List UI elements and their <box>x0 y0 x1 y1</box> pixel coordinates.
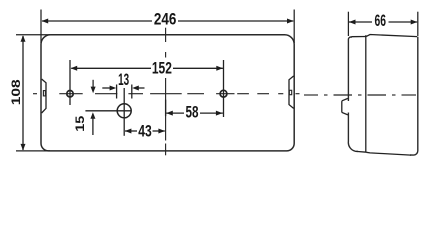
side view mounting tab (profile) <box>342 98 348 115</box>
side view housing bottom edge <box>366 152 411 155</box>
right mounting hole <box>220 90 227 97</box>
svg-text:108: 108 <box>9 79 23 105</box>
dimension 58 line <box>166 112 223 114</box>
dimension 152 arrows <box>71 66 223 71</box>
svg-text:58: 58 <box>186 102 199 121</box>
dimension 108 arrows <box>21 35 26 150</box>
dimension 15 arrow <box>90 112 95 119</box>
right mounting tab <box>289 76 294 108</box>
dimension 13 arrows (outside, pointing inward) <box>110 86 139 91</box>
extension line: left edge extended up (246 dim) <box>40 10 42 44</box>
dimension 66 extension lines <box>347 12 349 36</box>
dimension texts <box>9 10 386 141</box>
side view housing top edge (step up at seam) <box>366 35 417 37</box>
dimension 15 upper arrow (down onto holes centerline) <box>91 87 96 94</box>
dimension 66 arrows <box>349 20 417 25</box>
svg-text:66: 66 <box>375 11 387 30</box>
left mounting tab <box>42 79 46 113</box>
dimension 58 arrows <box>166 111 222 116</box>
right hole vertical centerline / 152+58 extension <box>223 60 225 117</box>
dimension 246 arrows <box>42 19 294 24</box>
cable circle vertical centerline / 43 extension <box>123 88 125 136</box>
vertical centerline of lamp <box>165 28 167 156</box>
dimension 58 left extension (lamp centerline reinforced) <box>165 100 167 116</box>
side view lens bottom edge <box>356 150 366 153</box>
extension line: right edge extended up (246 dim) <box>293 10 295 44</box>
svg-text:246: 246 <box>154 10 177 29</box>
dimension 13 extension ticks (circle tangents) <box>117 85 132 99</box>
side view horizontal centerline (dash-dot) <box>304 94 416 96</box>
side view lens/housing seam <box>365 35 367 152</box>
svg-text:43: 43 <box>138 122 152 141</box>
extension line: top edge extended left (108 dim) <box>16 34 50 36</box>
left tab slot <box>43 91 45 96</box>
dimension 108 line <box>22 36 24 150</box>
dimension 246 line <box>42 20 293 22</box>
dimension 66 line <box>349 21 417 23</box>
cable circle horizontal centerline / 15 reference <box>85 110 131 112</box>
svg-text:15: 15 <box>75 115 87 132</box>
extension line: bottom edge extended left (108 dim) <box>16 150 50 152</box>
dimension 43 arrows <box>125 129 165 134</box>
cable entry circle <box>117 104 131 118</box>
side view lens front edge <box>348 37 352 101</box>
svg-text:13: 13 <box>118 70 129 89</box>
right tab slot <box>289 90 291 94</box>
horizontal centerline through mounting holes (dash-dot) <box>33 93 300 95</box>
svg-text:152: 152 <box>152 58 172 77</box>
dimension 43 line <box>125 130 165 132</box>
side view lens top edge <box>352 36 367 38</box>
dimension 152 line <box>71 67 223 69</box>
lamp front view outline <box>41 35 294 151</box>
side view housing rear edge <box>410 37 418 155</box>
left hole vertical centerline / 152 extension <box>69 60 71 105</box>
left mounting hole <box>67 91 73 97</box>
